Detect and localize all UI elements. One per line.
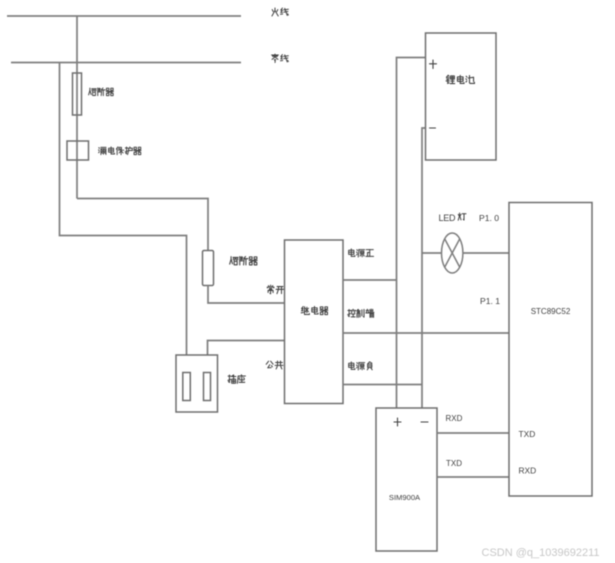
label 零线 (neutral wire) [272, 54, 289, 62]
label 电源负 (power -) [349, 362, 373, 370]
svg-text:TXD: TXD [519, 429, 536, 439]
wire fuse FU2 to relay 常开 terminal [208, 286, 285, 304]
svg-text:RXD: RXD [446, 414, 463, 423]
wire relay 电源负 to battery - rail [343, 384, 422, 386]
svg-text:P1. 1: P1. 1 [480, 296, 500, 306]
wire from 零线 to socket left pin [60, 63, 187, 356]
wire battery - rail to LED [422, 252, 442, 254]
label 电源正 (power +) [349, 249, 374, 257]
socket pin 1 [183, 373, 191, 401]
wire SIM900A RXD to MCU TXD [437, 432, 509, 434]
leakage protector (漏电保护器) [67, 141, 89, 160]
fuse FU2 (熔断器) [203, 251, 214, 286]
svg-text:SIM900A: SIM900A [389, 493, 421, 502]
SIM900A + terminal mark [394, 418, 401, 426]
battery + terminal mark [430, 60, 437, 69]
label 熔断器 FU1 [89, 88, 114, 96]
wire relay 控制端 to MCU P1.1 [343, 332, 509, 334]
MCU U1 STC89C52 [509, 203, 592, 497]
relay U2 (继电器) [285, 240, 344, 404]
wire SIM900A TXD to MCU RXD [437, 476, 509, 478]
socket pin 2 [204, 373, 211, 401]
label 常开 (normally-open terminal) [267, 285, 284, 294]
label 继电器 (relay) [301, 306, 328, 314]
wire battery - rail down to SIM900A - [422, 128, 426, 408]
LED lamp DS1 (LED灯 symbol: ellipse with cross) [442, 233, 463, 273]
svg-text:STC89C52: STC89C52 [531, 307, 571, 316]
label 漏电保护器 [99, 147, 141, 155]
wire relay 电源正 to battery + rail [343, 279, 397, 281]
wire bend to fuse FU2 [77, 199, 208, 251]
label 锂电池 (lithium battery) [446, 75, 474, 83]
socket (插座) [176, 355, 218, 412]
wire socket right pin to relay 公共端 terminal [208, 341, 285, 356]
label 控制端 (control) [348, 309, 374, 317]
wire neutral line (net 零线) [11, 62, 241, 64]
battery - terminal mark [430, 127, 436, 129]
fuse FU1 (熔断器) [73, 73, 82, 115]
label 公共端 (common terminal) [266, 361, 293, 369]
GSM module U3 SIM900A [376, 408, 437, 551]
SIM900A - terminal mark [421, 421, 428, 423]
wire live line (net 火线) [7, 15, 241, 17]
wire battery + rail down to SIM900A + [397, 58, 426, 409]
label 火线 (live wire) [272, 8, 288, 16]
battery BT1 (锂电池) [426, 33, 497, 160]
label 插座 (socket) [228, 375, 245, 384]
svg-text:P1. 0: P1. 0 [479, 213, 499, 223]
svg-text:CSDN @q_1039692211: CSDN @q_1039692211 [482, 547, 600, 559]
svg-text:TXD: TXD [446, 459, 462, 468]
wire LED to MCU pin P1.0 [463, 252, 509, 254]
svg-text:RXD: RXD [519, 466, 537, 476]
svg-text:LED: LED [439, 213, 457, 223]
wire from 火线 down through fuse FU1 to leakage protector [76, 16, 78, 199]
label 熔断器 FU2 [230, 256, 257, 265]
